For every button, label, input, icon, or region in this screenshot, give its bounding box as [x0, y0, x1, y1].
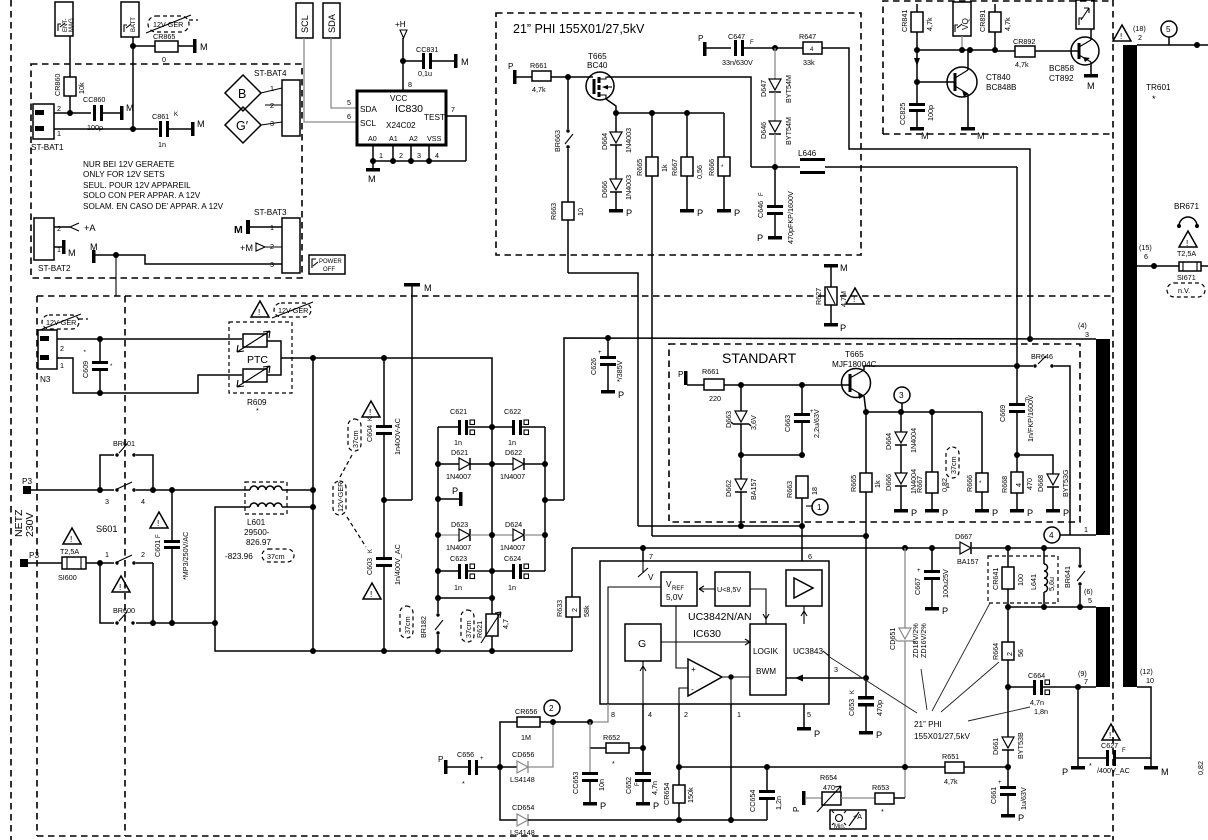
wire VCC y548: [572, 547, 960, 549]
svg-text:P: P: [626, 208, 632, 218]
svg-text:1k: 1k: [660, 164, 669, 172]
svg-text:2: 2: [1138, 33, 1142, 42]
connector U T (top right): [1076, 0, 1094, 40]
svg-text:M: M: [368, 174, 376, 184]
svg-text:4: 4: [141, 497, 145, 506]
jumper BR601: [100, 439, 153, 490]
37cm flag (C604): [340, 419, 361, 477]
21PHI dashed box: [496, 13, 861, 255]
wire pin (15)/6: [1137, 243, 1179, 269]
inductor L646: [751, 149, 1017, 174]
svg-text:BATT: BATT: [131, 17, 137, 32]
svg-text:8: 8: [611, 710, 615, 719]
svg-text:R647: R647: [799, 32, 816, 41]
capacitor C647 (33n/630V): [722, 32, 803, 67]
svg-text:4,7k: 4,7k: [925, 17, 934, 31]
svg-text:P: P: [508, 62, 514, 71]
svg-text:6: 6: [808, 552, 812, 561]
ground P (R668): [1010, 508, 1033, 518]
svg-text:1N4007: 1N4007: [500, 472, 525, 481]
svg-text:5: 5: [1088, 596, 1092, 605]
svg-text:!: !: [369, 408, 371, 417]
svg-text:1u/63V: 1u/63V: [1019, 787, 1028, 810]
svg-text:NUR BEI 12V GERAETE: NUR BEI 12V GERAETE: [83, 160, 175, 169]
ground M (CT840): [961, 127, 985, 141]
svg-text:0,82: 0,82: [1196, 761, 1205, 775]
svg-text:BYT53B: BYT53B: [1016, 732, 1025, 759]
wire BATT down: [132, 37, 134, 129]
pin 8 wire: [587, 704, 608, 748]
resistor CR891 (4,7k): [978, 4, 1012, 50]
ground P (D668): [1046, 508, 1069, 518]
pin 5 ground P: [797, 704, 820, 739]
resistor R666 std: [965, 412, 988, 509]
svg-text:C663: C663: [783, 415, 792, 432]
svg-text:1: 1: [1084, 525, 1088, 534]
ground M (CC825): [910, 127, 929, 141]
connector ST-BAT4: [254, 69, 300, 136]
capacitor C623: [438, 554, 492, 592]
svg-text:P: P: [942, 508, 948, 518]
37cm flag (R667): [946, 447, 959, 490]
svg-text:M: M: [1161, 767, 1169, 777]
svg-text:K: K: [368, 417, 374, 421]
svg-text:100p: 100p: [87, 123, 103, 132]
svg-text:*/385V: */385V: [615, 360, 624, 382]
svg-text:M: M: [234, 224, 243, 236]
svg-text:D664: D664: [600, 133, 609, 150]
resistor R667 std (0,82): [915, 412, 949, 509]
node 3 circle: [894, 387, 910, 412]
svg-text:P: P: [1027, 508, 1033, 518]
ST-BAT dashed box: [31, 64, 302, 278]
svg-text:BR663: BR663: [553, 130, 562, 152]
svg-text:F: F: [759, 192, 765, 196]
wire R647 to pin3: [822, 48, 1030, 339]
svg-text:T2,5A: T2,5A: [60, 547, 79, 556]
ground M (ST-BAT2 pin1): [54, 240, 76, 258]
svg-text:A2: A2: [409, 134, 418, 143]
capacitor C603 (1n/400V_AC): [365, 500, 402, 651]
capacitor C664 (4,7n): [1008, 671, 1096, 716]
svg-text:M: M: [126, 103, 134, 113]
svg-text:R652: R652: [603, 733, 620, 742]
flag +H: [395, 20, 407, 38]
svg-text:M: M: [200, 42, 208, 52]
LDR box: [830, 810, 866, 830]
svg-text:33n/630V: 33n/630V: [722, 58, 753, 67]
svg-text:3: 3: [899, 391, 904, 400]
internal wires: [608, 587, 661, 704]
wire source to divider: [606, 99, 616, 113]
svg-text:1: 1: [379, 151, 383, 160]
svg-text:V: V: [648, 573, 654, 582]
svg-text:IC630: IC630: [693, 628, 721, 640]
n.V. flag: [1167, 283, 1205, 297]
block driver: [786, 570, 822, 606]
svg-text:(15): (15): [1139, 243, 1152, 252]
capacitor C609: [81, 339, 113, 393]
svg-text:REF: REF: [672, 586, 684, 592]
inductor L601: [244, 486, 316, 547]
svg-text:D646: D646: [759, 122, 768, 139]
wire pole a to L601: [153, 489, 250, 491]
capacitor CC825 (100p): [898, 82, 935, 127]
svg-text:1: 1: [57, 129, 61, 138]
resistor R665 std (1k): [849, 409, 882, 536]
svg-text:ST-BAT4: ST-BAT4: [254, 69, 287, 78]
svg-text:D647: D647: [759, 80, 768, 97]
svg-text:33k: 33k: [803, 58, 815, 67]
capacitor C624: [492, 554, 545, 592]
warning triangle (C627): [1102, 724, 1120, 740]
svg-text:M: M: [197, 119, 205, 129]
jumper BR182: [419, 598, 443, 651]
wire CT840 emitter: [967, 94, 969, 127]
svg-text:CR892: CR892: [1013, 37, 1035, 46]
thermistor PTC R609: [237, 331, 281, 415]
wire N3 pin2 to PTC: [57, 338, 242, 340]
POWER OFF box: [309, 255, 345, 274]
warning triangle T2,5A (right): [1177, 231, 1197, 258]
fuse SI671: [1177, 262, 1208, 282]
svg-text:T2,5A: T2,5A: [1177, 249, 1196, 258]
wire ST-BAT1 pin1: [54, 128, 158, 130]
svg-text:4,7k: 4,7k: [1003, 17, 1012, 31]
connector N3: [38, 330, 64, 384]
ground P (C646): [757, 233, 782, 243]
svg-text:K: K: [850, 690, 856, 694]
svg-text:37cm: 37cm: [464, 620, 473, 638]
ground M (CC860): [120, 103, 134, 120]
flag P3 (lower): [20, 551, 62, 567]
svg-text:1: 1: [817, 503, 822, 512]
svg-text:4: 4: [1049, 531, 1054, 540]
potentiometer R654 (470): [817, 773, 875, 812]
svg-text:D662: D662: [724, 480, 733, 497]
warning triangle (BR600): [112, 576, 130, 592]
svg-text:3: 3: [417, 151, 421, 160]
svg-text:M: M: [840, 263, 848, 273]
diode D664 std 1N4004: [884, 412, 918, 473]
pin 7 /V symbol: [638, 561, 654, 582]
svg-text:470pFKP/1600V: 470pFKP/1600V: [786, 191, 795, 244]
svg-text:2: 2: [684, 710, 688, 719]
svg-text:CC825: CC825: [898, 103, 907, 125]
svg-text:3: 3: [834, 665, 838, 674]
svg-text:*MP3/250V/AC: *MP3/250V/AC: [181, 532, 190, 580]
svg-text:1N4007: 1N4007: [446, 472, 471, 481]
svg-text:SDA: SDA: [327, 13, 337, 33]
svg-text:4: 4: [648, 710, 652, 719]
svg-text:P: P: [678, 370, 684, 379]
resistor R627 (4,7M): [814, 287, 848, 323]
svg-text:F: F: [750, 40, 754, 46]
svg-text:VSS: VSS: [427, 134, 442, 143]
wire B to ST-BAT4: [261, 88, 282, 93]
svg-text:10: 10: [1146, 676, 1154, 685]
svg-text:Min.: Min.: [834, 824, 846, 830]
ground P (R627 bottom): [824, 323, 846, 333]
svg-text:(18): (18): [1133, 24, 1146, 33]
svg-text:D623: D623: [451, 520, 468, 529]
svg-text:BR182: BR182: [419, 616, 428, 638]
svg-text:R621: R621: [475, 621, 484, 638]
svg-text:*: *: [256, 406, 259, 415]
svg-text:100p: 100p: [926, 105, 935, 121]
flag P (R654): [792, 791, 822, 812]
svg-text:150k: 150k: [686, 787, 695, 803]
resistor R647 (33k): [799, 32, 822, 67]
ground M (C627): [1144, 758, 1169, 777]
ground P (R667 std): [925, 508, 948, 518]
wire M bus to ST-BAT3 pin3: [95, 255, 282, 264]
svg-text:CT892: CT892: [1049, 74, 1074, 83]
wire neutral to L601: [153, 507, 250, 623]
wire vertical bus x313: [312, 358, 314, 651]
wire source bus: [616, 112, 724, 114]
svg-text:21” PHI: 21” PHI: [914, 720, 942, 729]
svg-text:1M: 1M: [521, 733, 531, 742]
svg-text:5,0V: 5,0V: [666, 593, 683, 602]
warning triangle (C601): [150, 512, 168, 528]
svg-text:N3: N3: [40, 375, 51, 384]
svg-text:*: *: [881, 807, 884, 816]
svg-text:C647: C647: [728, 32, 745, 41]
connector SCL: [296, 3, 313, 38]
svg-text:!: !: [1120, 32, 1122, 41]
12V-GER flag (PTC): [272, 302, 313, 318]
wire to CR892: [995, 50, 1015, 52]
svg-text:C609: C609: [81, 361, 90, 378]
pin 7 drop: [642, 548, 644, 561]
diode D666 1N4003: [600, 175, 633, 209]
diode D668 BYT53G: [1017, 455, 1070, 509]
svg-text:R633: R633: [555, 600, 564, 617]
ground M (R627 top): [824, 263, 848, 287]
wire PTC output rail: [281, 358, 492, 427]
pin 3 feedback arrow: [786, 665, 869, 682]
ground P (CC653): [583, 801, 606, 811]
resistor R663 std (18): [785, 476, 819, 561]
diode D667 BA157: [955, 532, 979, 566]
12V-GER flag: [146, 15, 198, 33]
svg-text:L646: L646: [798, 149, 817, 158]
svg-text:K: K: [174, 112, 178, 118]
svg-text:P: P: [697, 208, 703, 218]
svg-text:CR654: CR654: [662, 783, 671, 805]
svg-text:P: P: [792, 806, 801, 812]
svg-text:1n400V-AC: 1n400V-AC: [393, 418, 402, 455]
svg-text:T665: T665: [845, 350, 864, 359]
svg-text:P: P: [911, 508, 917, 518]
ground M rail: [384, 283, 432, 500]
svg-text:U<8,5V: U<8,5V: [717, 585, 741, 594]
switch S601 pole b: [97, 550, 153, 623]
svg-text:ST-BAT1: ST-BAT1: [31, 143, 64, 152]
svg-text:A0: A0: [368, 134, 377, 143]
warning triangle (PTC): [251, 301, 269, 317]
inner dashed separation 12V: [124, 296, 126, 836]
svg-text:M: M: [977, 131, 985, 141]
svg-text:R654: R654: [820, 773, 837, 782]
37cm flag (R621): [461, 610, 474, 642]
diode D624 1N4007: [492, 520, 545, 552]
svg-text:P: P: [734, 208, 740, 218]
svg-text:P: P: [438, 755, 444, 764]
transistor T665 MJF18004C: [832, 350, 877, 399]
svg-text:D666: D666: [884, 474, 893, 491]
jumper BR663: [553, 77, 573, 202]
svg-text:CR865: CR865: [153, 32, 175, 41]
capacitor CC860: [83, 95, 120, 132]
svg-text:SOLO CON PER APPAR. A 12V: SOLO CON PER APPAR. A 12V: [83, 191, 201, 200]
svg-text:R627: R627: [814, 288, 823, 305]
svg-text:R664: R664: [991, 643, 1000, 660]
svg-text:0: 0: [162, 55, 166, 64]
diode D621 1N4007: [438, 448, 492, 481]
svg-text:-823.96: -823.96: [225, 552, 253, 561]
top-right dashed box: [883, 1, 1112, 134]
svg-text:100: 100: [1016, 574, 1025, 586]
warning triangle (18): [1113, 24, 1146, 42]
block G: [625, 624, 661, 661]
svg-text:21” PHI 155X01/27,5kV: 21” PHI 155X01/27,5kV: [513, 22, 645, 36]
svg-text:M: M: [424, 283, 432, 293]
svg-text:P: P: [452, 486, 458, 496]
svg-text:BYT53G: BYT53G: [1061, 469, 1070, 497]
annotation fan lines: [828, 603, 1030, 721]
svg-text:(12): (12): [1140, 667, 1153, 676]
svg-text:P: P: [698, 34, 704, 43]
warning triangle T2,5A (SI600): [60, 528, 81, 556]
svg-text:4,7n: 4,7n: [1030, 698, 1044, 707]
svg-text:+: +: [917, 568, 921, 574]
svg-text:5: 5: [807, 710, 811, 719]
resistor CR654 (150k): [662, 767, 695, 820]
node 5 circle: [1161, 21, 1177, 45]
svg-text:P: P: [942, 606, 948, 616]
svg-text:1n: 1n: [508, 438, 516, 447]
svg-text:1: 1: [946, 481, 950, 490]
svg-text:(6): (6): [1084, 587, 1093, 596]
block LOGIK BWM: [750, 624, 786, 695]
svg-text:CR860: CR860: [53, 74, 62, 96]
ground M (CR865): [193, 39, 208, 53]
svg-text:BA157: BA157: [749, 478, 758, 500]
svg-text:S601: S601: [96, 524, 117, 534]
svg-text:TEST: TEST: [424, 113, 445, 122]
ground P (C653): [859, 730, 882, 740]
transformer dashed separation: [1112, 0, 1114, 840]
svg-text:1n: 1n: [454, 583, 462, 592]
svg-text:C623: C623: [450, 554, 467, 563]
svg-text:7: 7: [649, 552, 653, 561]
ground P (R666 std): [975, 508, 998, 518]
ground P (D666 std): [894, 508, 917, 518]
flag P (C647): [698, 34, 731, 56]
svg-text:UC3842N/AN: UC3842N/AN: [688, 611, 752, 623]
svg-text:M: M: [68, 248, 76, 258]
svg-text:C667: C667: [913, 578, 922, 595]
svg-text:2: 2: [1005, 652, 1014, 656]
svg-text:D624: D624: [505, 520, 522, 529]
IC830 EEPROM: [357, 91, 446, 145]
svg-text:4,7: 4,7: [501, 619, 510, 629]
resistor R653: [872, 783, 905, 816]
svg-text:220: 220: [709, 394, 721, 403]
connector SDA: [323, 3, 340, 38]
wire R663 jog down-left rail: [568, 273, 638, 526]
svg-text:10n: 10n: [597, 779, 606, 791]
svg-text:*: *: [462, 779, 465, 788]
resistor CR641 (100): [991, 548, 1025, 607]
svg-text:!: !: [1186, 239, 1188, 248]
resistor R664 (56): [991, 607, 1025, 690]
svg-text:A1: A1: [389, 134, 398, 143]
svg-text:2: 2: [60, 344, 64, 353]
ground P (C626): [601, 390, 624, 400]
resistor R668 (470): [1000, 455, 1034, 509]
svg-text:VCC: VCC: [390, 94, 407, 103]
current arrow: [914, 58, 920, 66]
capacitor C622: [492, 407, 545, 447]
pin 1 wire: [730, 704, 732, 820]
svg-text:P: P: [600, 801, 606, 811]
svg-text:1n/400V_AC: 1n/400V_AC: [393, 544, 402, 585]
svg-text:+: +: [691, 665, 696, 674]
svg-text:B: B: [238, 87, 246, 101]
connector U VQ: [953, 2, 971, 50]
svg-text:T665: T665: [588, 52, 607, 61]
ground P (C652): [636, 801, 659, 811]
svg-text:ZD16V/2%: ZD16V/2%: [919, 623, 928, 658]
warning triangle (R627): [846, 288, 864, 304]
jumper BR641: [1063, 548, 1093, 607]
svg-text:F: F: [156, 534, 162, 538]
svg-text:R651: R651: [942, 752, 959, 761]
svg-text:*: *: [612, 759, 615, 768]
svg-text:D667: D667: [955, 532, 972, 541]
ground P (C627): [1062, 758, 1085, 777]
svg-text:P3: P3: [29, 551, 39, 560]
ground M (IC830): [366, 161, 380, 184]
inductor L641 (5,6u): [1029, 548, 1056, 607]
svg-text:P: P: [653, 801, 659, 811]
flag +M (ST-BAT3 pin2): [240, 243, 282, 253]
svg-text:D621: D621: [451, 448, 468, 457]
diode D666 std 1N4004: [884, 469, 918, 509]
capacitor CC831: [403, 45, 454, 78]
svg-text:1N4004: 1N4004: [909, 428, 918, 453]
svg-text:+: +: [480, 756, 484, 762]
svg-text:CC654: CC654: [748, 790, 757, 812]
warning triangle (C604): [362, 401, 380, 417]
svg-text:C669: C669: [998, 405, 1007, 422]
svg-text:CD654: CD654: [512, 803, 534, 812]
svg-text:X24C02: X24C02: [386, 121, 416, 130]
svg-text:D666: D666: [600, 181, 609, 198]
rail center: [491, 427, 493, 598]
svg-text:R668: R668: [1000, 476, 1009, 493]
svg-text:M: M: [461, 57, 469, 67]
svg-text:BYT54M: BYT54M: [784, 117, 793, 145]
svg-text:D668: D668: [1036, 475, 1045, 492]
L601 dashed box: [245, 482, 287, 514]
svg-text:1N4003: 1N4003: [624, 128, 633, 153]
svg-text:K: K: [368, 549, 374, 553]
wire base bus: [917, 49, 995, 51]
